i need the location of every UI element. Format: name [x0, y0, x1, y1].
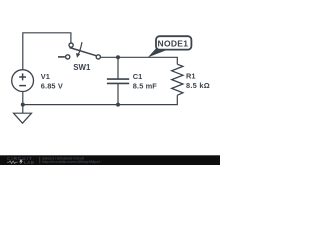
svg-text:NODE1: NODE1: [158, 38, 189, 48]
svg-text:R1: R1: [186, 72, 195, 81]
svg-text:6.85 V: 6.85 V: [41, 81, 63, 90]
svg-text:8.5 kΩ: 8.5 kΩ: [186, 81, 210, 90]
svg-text:8.5 mF: 8.5 mF: [133, 81, 157, 90]
svg-text:http://circuitlab.com/c489mje9: http://circuitlab.com/c489mje938pe2: [42, 160, 100, 164]
svg-text:V1: V1: [41, 72, 50, 81]
svg-text:SW1: SW1: [73, 63, 91, 72]
svg-text:LAB: LAB: [24, 160, 35, 165]
svg-text:C1: C1: [133, 72, 142, 81]
